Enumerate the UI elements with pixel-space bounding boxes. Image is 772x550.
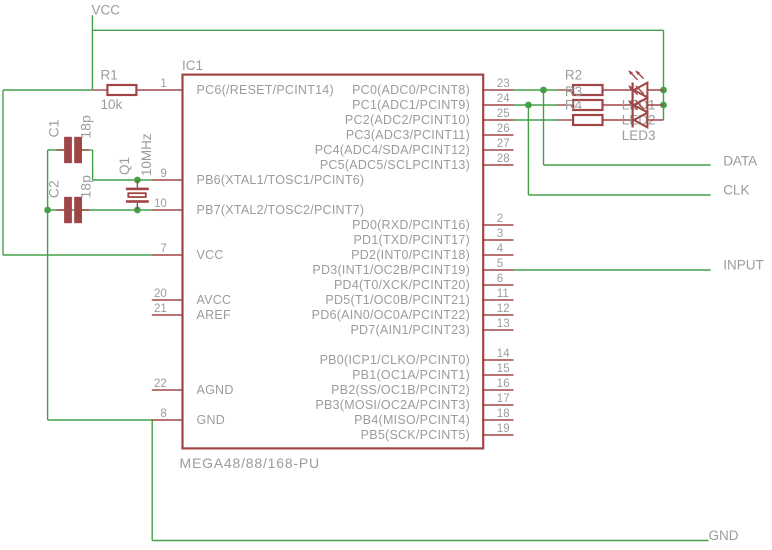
- svg-text:PC3(ADC3/PCINT11): PC3(ADC3/PCINT11): [346, 128, 470, 142]
- wire GND vertical down: [151, 420, 153, 541]
- IC1 pin 6 stub (right): [482, 284, 514, 286]
- wire DATA vertical: [543, 90, 545, 165]
- resistor R3: [558, 100, 633, 110]
- wire VCC far-left vertical: [2, 90, 4, 255]
- svg-text:25: 25: [497, 108, 510, 120]
- svg-text:10: 10: [154, 198, 167, 210]
- svg-text:11: 11: [497, 288, 509, 300]
- svg-text:10MHz: 10MHz: [139, 133, 154, 176]
- wire XTAL2 / C2 row to pin 10: [48, 209, 152, 211]
- svg-text:5: 5: [497, 258, 503, 270]
- svg-text:C1: C1: [46, 119, 62, 137]
- svg-text:PB2(SS/OC1B/PCINT2): PB2(SS/OC1B/PCINT2): [331, 383, 470, 397]
- svg-text:GND: GND: [197, 413, 226, 427]
- junction VCC rail LED1: [660, 87, 667, 94]
- svg-text:AREF: AREF: [197, 308, 231, 322]
- IC1 pin 5 stub (right): [482, 269, 514, 271]
- svg-text:PC4(ADC4/SDA/PCINT12): PC4(ADC4/SDA/PCINT12): [315, 143, 470, 157]
- svg-text:PD3(INT1/OC2B/PCINT19): PD3(INT1/OC2B/PCINT19): [312, 263, 470, 277]
- wire C1 right to corner: [82, 149, 93, 151]
- svg-text:PB4(MISO/PCINT4): PB4(MISO/PCINT4): [354, 413, 470, 427]
- IC1 pin 20 stub (left): [152, 299, 183, 301]
- svg-text:PD5(T1/OC0B/PCINT21): PD5(T1/OC0B/PCINT21): [325, 293, 470, 307]
- svg-text:PD6(AIN0/OC0A/PCINT22): PD6(AIN0/OC0A/PCINT22): [312, 308, 470, 322]
- svg-text:8: 8: [160, 408, 166, 420]
- svg-text:24: 24: [497, 93, 510, 105]
- svg-text:27: 27: [497, 138, 510, 150]
- svg-text:7: 7: [160, 243, 166, 255]
- svg-text:21: 21: [154, 303, 167, 315]
- IC1 pin 23 stub (right): [482, 89, 514, 91]
- svg-text:PD2(INT0/PCINT18): PD2(INT0/PCINT18): [351, 248, 470, 262]
- IC1 pin 9 stub (left): [152, 179, 183, 181]
- svg-text:R1: R1: [101, 68, 118, 83]
- IC1 pin 28 stub (right): [482, 164, 514, 166]
- IC1 pin 2 stub (right): [482, 224, 514, 226]
- svg-text:PC1(ADC1/PCINT9): PC1(ADC1/PCINT9): [352, 98, 470, 112]
- svg-text:6: 6: [497, 273, 503, 285]
- svg-text:PC0(ADC0/PCINT8): PC0(ADC0/PCINT8): [352, 83, 470, 97]
- wire GND bottom rail: [152, 540, 708, 542]
- wire CLK vertical: [527, 105, 529, 195]
- svg-text:INPUT: INPUT: [723, 258, 764, 273]
- wire VCC to pin 7: [3, 254, 152, 256]
- svg-text:C2: C2: [46, 180, 62, 198]
- IC1 pin 21 stub (left): [152, 314, 183, 316]
- IC1 pin 24 stub (right): [482, 104, 514, 106]
- wire pin23 to R2: [514, 89, 558, 91]
- wire GND vertical at C1/C2 left: [47, 150, 49, 420]
- svg-text:1: 1: [160, 78, 166, 90]
- IC1 pin 8 stub (left): [152, 419, 183, 421]
- wire DATA horizontal: [544, 164, 711, 166]
- svg-text:18p: 18p: [78, 115, 94, 139]
- wire VCC vertical from label: [91, 15, 93, 90]
- svg-text:PB7(XTAL2/TOSC2/PCINT7): PB7(XTAL2/TOSC2/PCINT7): [197, 203, 365, 217]
- svg-text:2: 2: [497, 213, 503, 225]
- svg-text:AGND: AGND: [197, 383, 234, 397]
- IC1 pin 7 stub (left): [152, 254, 183, 256]
- svg-text:PB3(MOSI/OC2A/PCINT3): PB3(MOSI/OC2A/PCINT3): [315, 398, 470, 412]
- svg-text:R4: R4: [565, 98, 583, 113]
- svg-text:Q1: Q1: [117, 157, 132, 175]
- wire INPUT from pin 5: [514, 269, 711, 271]
- IC1 pin 22 stub (left): [152, 389, 183, 391]
- IC1 pin 3 stub (right): [482, 239, 514, 241]
- svg-text:17: 17: [497, 393, 510, 405]
- svg-text:9: 9: [160, 168, 166, 180]
- IC1 pin 11 stub (right): [482, 299, 514, 301]
- svg-text:PD1(TXD/PCINT17): PD1(TXD/PCINT17): [353, 233, 470, 247]
- wire VCC right rail to LEDs: [663, 30, 665, 120]
- junction VCC rail LED2: [660, 102, 667, 109]
- svg-text:VCC: VCC: [197, 248, 224, 262]
- IC1 pin 19 stub (right): [482, 434, 514, 436]
- svg-text:PD7(AIN1/PCINT23): PD7(AIN1/PCINT23): [350, 323, 470, 337]
- IC1 pin 10 stub (left): [152, 209, 183, 211]
- IC1 pin 26 stub (right): [482, 134, 514, 136]
- junction CLK: [525, 102, 532, 109]
- crystal Q1 10MHz: [126, 180, 149, 210]
- wire XTAL1 vertical: [92, 150, 94, 180]
- wire VCC top horizontal: [92, 29, 663, 31]
- IC1 pin 12 stub (right): [482, 314, 514, 316]
- wire GND bottom horizontal from caps: [48, 419, 153, 421]
- svg-text:10k: 10k: [101, 97, 123, 112]
- svg-text:18: 18: [497, 408, 510, 420]
- svg-text:18p: 18p: [78, 175, 94, 199]
- svg-text:12: 12: [497, 303, 510, 315]
- IC1 pin 17 stub (right): [482, 404, 514, 406]
- svg-text:PD4(T0/XCK/PCINT20): PD4(T0/XCK/PCINT20): [334, 278, 470, 292]
- wire VCC to R1 left: [3, 89, 92, 91]
- svg-text:22: 22: [154, 378, 167, 390]
- LED LED1: [628, 70, 663, 97]
- svg-text:LED3: LED3: [622, 128, 656, 143]
- svg-text:23: 23: [497, 78, 510, 90]
- svg-text:VCC: VCC: [92, 3, 121, 18]
- resistor R4: [558, 115, 633, 125]
- IC1 pin 18 stub (right): [482, 419, 514, 421]
- svg-text:AVCC: AVCC: [197, 293, 232, 307]
- svg-text:PD0(RXD/PCINT16): PD0(RXD/PCINT16): [352, 218, 470, 232]
- svg-text:16: 16: [497, 378, 510, 390]
- svg-text:DATA: DATA: [723, 154, 757, 169]
- svg-text:CLK: CLK: [723, 183, 749, 198]
- IC1 pin 25 stub (right): [482, 119, 514, 121]
- svg-text:26: 26: [497, 123, 510, 135]
- svg-text:14: 14: [497, 348, 510, 360]
- svg-text:13: 13: [497, 318, 510, 330]
- IC1 pin 4 stub (right): [482, 254, 514, 256]
- svg-text:GND: GND: [709, 528, 739, 543]
- svg-text:3: 3: [497, 228, 503, 240]
- LED LED2: [628, 85, 663, 112]
- wire pin24 to R3: [514, 104, 558, 106]
- svg-text:19: 19: [497, 423, 510, 435]
- svg-text:IC1: IC1: [182, 58, 203, 73]
- svg-text:4: 4: [497, 243, 504, 255]
- svg-text:20: 20: [154, 288, 167, 300]
- resistor R1: [92, 85, 136, 95]
- capacitor C2: [57, 197, 90, 223]
- capacitor C1: [57, 137, 90, 163]
- svg-text:MEGA48/88/168-PU: MEGA48/88/168-PU: [180, 455, 320, 471]
- svg-text:PC2(ADC2/PCINT10): PC2(ADC2/PCINT10): [345, 113, 470, 127]
- IC1 pin 14 stub (right): [482, 359, 514, 361]
- wire pin25 to R4: [514, 119, 558, 121]
- svg-text:PC6(/RESET/PCINT14): PC6(/RESET/PCINT14): [197, 83, 334, 97]
- IC1 pin 1 stub (left): [138, 89, 183, 91]
- LED LED3: [628, 100, 663, 127]
- wire XTAL1 to pin 9: [93, 179, 152, 181]
- wire C1 left stub: [48, 149, 64, 151]
- op-amp U1 IC1 box MEGA48/88/168-PU: [183, 75, 484, 449]
- junction DATA: [540, 87, 547, 94]
- junction GND at C2: [44, 207, 51, 214]
- svg-text:PC5(ADC5/SCLPCINT13): PC5(ADC5/SCLPCINT13): [320, 158, 470, 172]
- IC1 pin 16 stub (right): [482, 389, 514, 391]
- IC1 pin 13 stub (right): [482, 329, 514, 331]
- svg-text:PB6(XTAL1/TOSC1/PCINT6): PB6(XTAL1/TOSC1/PCINT6): [197, 173, 365, 187]
- junction XTAL1: [134, 177, 141, 184]
- svg-text:28: 28: [497, 153, 510, 165]
- wire CLK horizontal: [528, 194, 710, 196]
- svg-text:R2: R2: [565, 68, 582, 83]
- IC1 pin 27 stub (right): [482, 149, 514, 151]
- svg-text:PB5(SCK/PCINT5): PB5(SCK/PCINT5): [361, 428, 470, 442]
- resistor R2: [558, 85, 633, 95]
- junction XTAL2: [134, 207, 141, 214]
- svg-text:PB0(ICP1/CLKO/PCINT0): PB0(ICP1/CLKO/PCINT0): [320, 353, 470, 367]
- svg-text:15: 15: [497, 363, 510, 375]
- IC1 pin 15 stub (right): [482, 374, 514, 376]
- svg-text:PB1(OC1A/PCINT1): PB1(OC1A/PCINT1): [352, 368, 470, 382]
